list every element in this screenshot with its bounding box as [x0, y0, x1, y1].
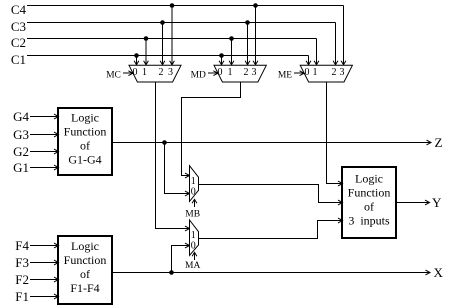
svg-text:of: of: [80, 267, 90, 281]
wire F2 input: [30, 279, 57, 281]
wire MD select arrow: [208, 72, 217, 74]
wire C2 to MC input 1: [145, 39, 147, 65]
wire X output: [112, 272, 429, 274]
wire MA select arrow: [194, 253, 196, 259]
mux MC: [129, 65, 181, 82]
svg-text:2: 2: [332, 67, 337, 78]
svg-text:2: 2: [159, 67, 164, 78]
box F logic: [58, 236, 112, 304]
svg-text:C4: C4: [11, 2, 27, 17]
svg-text:3 inputs: 3 inputs: [348, 213, 390, 227]
svg-text:G3: G3: [13, 127, 29, 142]
wire MB select arrow: [194, 200, 196, 207]
wire C1 to MC input 0: [136, 56, 138, 65]
mux MA: [190, 220, 199, 255]
wire MA output to 3-input box bottom input: [199, 221, 342, 239]
svg-text:0: 0: [191, 241, 196, 252]
wire ME output to 3-input box top input: [327, 82, 342, 184]
wire C1 to MD input 0: [221, 56, 223, 65]
svg-text:1: 1: [142, 67, 147, 78]
wire MB output to 3-input box middle input: [199, 185, 342, 203]
svg-text:F1-F4: F1-F4: [70, 281, 99, 295]
node C4-MC junction: [170, 3, 175, 8]
svg-text:0: 0: [305, 67, 310, 78]
wire C4 to MC input 3: [171, 6, 173, 65]
svg-text:C1: C1: [11, 52, 26, 67]
node C2-MC junction: [144, 36, 149, 41]
wire C2 horizontal: [27, 38, 317, 40]
svg-text:MA: MA: [185, 261, 200, 271]
node C1-MD junction: [219, 53, 224, 58]
svg-text:1: 1: [313, 67, 318, 78]
svg-text:G4: G4: [13, 109, 29, 124]
svg-text:1: 1: [228, 67, 233, 78]
node X tap junction: [169, 270, 174, 275]
node C1-MC junction: [134, 53, 139, 58]
wire C2 to MD input 1: [231, 39, 233, 65]
svg-text:C3: C3: [11, 19, 26, 34]
svg-text:Function: Function: [348, 185, 391, 199]
wire C4 horizontal: [27, 5, 344, 7]
wire C1 horizontal: [27, 55, 309, 57]
mux MB: [190, 166, 199, 202]
wire Z output: [112, 142, 430, 144]
wire C3 to MC input 2: [162, 23, 164, 65]
svg-text:0: 0: [133, 67, 138, 78]
svg-text:Function: Function: [64, 253, 107, 267]
svg-text:C2: C2: [11, 35, 26, 50]
box G logic: [58, 108, 112, 175]
wire C1 to ME input 0: [308, 56, 310, 65]
svg-text:G1: G1: [13, 160, 29, 175]
wire ME select arrow: [294, 72, 303, 74]
svg-text:MC: MC: [106, 70, 121, 80]
wire C4 to MD input 3: [255, 6, 257, 65]
svg-text:F4: F4: [15, 238, 29, 253]
svg-text:MD: MD: [191, 70, 206, 80]
wire C4 to ME input 3: [343, 6, 345, 65]
svg-text:1: 1: [191, 230, 196, 241]
svg-text:3: 3: [252, 67, 257, 78]
node C3-MD junction: [245, 20, 250, 25]
wire C2 to ME input 1: [316, 39, 318, 65]
box 3-input logic: [342, 167, 396, 238]
wire C3 horizontal: [27, 22, 336, 24]
node C4-MD junction: [253, 3, 258, 8]
svg-text:G1-G4: G1-G4: [68, 152, 101, 166]
svg-text:Logic: Logic: [71, 239, 99, 253]
svg-text:3: 3: [340, 67, 345, 78]
wire C3 to ME input 2: [335, 23, 337, 65]
svg-text:Z: Z: [435, 135, 443, 150]
wire X tap to MA input 0: [172, 246, 189, 273]
svg-text:of: of: [364, 199, 374, 213]
wire G2 input: [30, 151, 57, 153]
wire MC output to MA input 1: [156, 82, 189, 229]
mux MD: [214, 65, 266, 82]
wire MC select arrow: [123, 72, 132, 74]
svg-text:ME: ME: [278, 70, 292, 80]
wire G1 input: [30, 167, 57, 169]
node C3-MC junction: [160, 20, 165, 25]
node C2-MD junction: [229, 36, 234, 41]
mux ME: [300, 65, 352, 82]
svg-text:1: 1: [191, 176, 196, 187]
wire F4 input: [30, 245, 57, 247]
wire Y output: [396, 202, 429, 204]
node Z tap junction: [162, 140, 167, 145]
wire F1 input: [30, 296, 57, 298]
wire F3 input: [30, 262, 57, 264]
svg-text:Y: Y: [432, 195, 442, 210]
svg-text:0: 0: [191, 187, 196, 198]
svg-text:Logic: Logic: [355, 171, 383, 185]
svg-text:of: of: [80, 138, 90, 152]
wire G4 input: [30, 116, 57, 118]
svg-text:F3: F3: [15, 255, 29, 270]
svg-text:F2: F2: [15, 272, 29, 287]
wire MD output to MB input 1: [182, 82, 241, 176]
svg-text:0: 0: [218, 67, 223, 78]
svg-text:Logic: Logic: [71, 110, 99, 124]
svg-text:X: X: [434, 265, 444, 280]
svg-text:MB: MB: [185, 209, 200, 219]
wire G3 input: [30, 134, 57, 136]
svg-text:3: 3: [168, 67, 173, 78]
svg-text:F1: F1: [15, 289, 29, 304]
svg-text:2: 2: [244, 67, 249, 78]
svg-text:G2: G2: [13, 144, 29, 159]
svg-text:Function: Function: [64, 124, 107, 138]
wire C3 to MD input 2: [247, 23, 249, 65]
wire Z tap to MB input 0: [165, 143, 189, 194]
